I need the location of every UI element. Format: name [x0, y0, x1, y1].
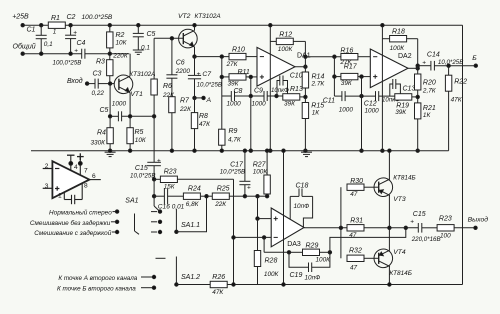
- svg-text:C5: C5: [147, 31, 156, 38]
- svg-text:+: +: [410, 218, 414, 225]
- op-amp DA1: [257, 47, 311, 86]
- resistor R26: [210, 274, 227, 296]
- svg-text:К точке А второго канала: К точке А второго канала: [58, 275, 137, 282]
- svg-text:C2: C2: [67, 14, 76, 21]
- resistor R5: [127, 116, 147, 150]
- pin 4: [67, 155, 78, 171]
- svg-text:R14: R14: [312, 73, 325, 80]
- svg-text:15К: 15К: [164, 183, 176, 190]
- resistor R10: [226, 47, 247, 68]
- svg-text:+: +: [422, 59, 426, 66]
- node junction C1 top: [40, 24, 43, 27]
- resistor R14: [302, 57, 325, 103]
- svg-text:10пФ: 10пФ: [305, 274, 321, 281]
- node R17 column top: [333, 55, 336, 58]
- node DA2 output: [408, 67, 419, 70]
- pin 7: [77, 153, 88, 175]
- node R11 column top: [220, 55, 223, 58]
- op-amp DA2: [370, 49, 411, 88]
- resistor R28: [254, 219, 279, 285]
- resistor R30: [347, 178, 379, 198]
- svg-text:Смешивание с задержкой: Смешивание с задержкой: [34, 229, 112, 237]
- svg-text:47: 47: [350, 191, 358, 198]
- svg-text:КТ814Б: КТ814Б: [393, 175, 416, 182]
- wire DA1 out to R16: [305, 56, 341, 58]
- svg-text:1000: 1000: [365, 107, 380, 114]
- svg-text:КТ3102А: КТ3102А: [129, 71, 155, 78]
- svg-text:+: +: [157, 158, 161, 165]
- resistor R4: [91, 116, 114, 150]
- svg-text:10К: 10К: [135, 137, 147, 144]
- svg-text:С13: С13: [403, 86, 416, 93]
- node Vykhod terminal: [468, 216, 489, 230]
- svg-text:R9: R9: [229, 128, 238, 135]
- svg-text:SA1.2: SA1.2: [181, 274, 200, 281]
- svg-text:R30: R30: [350, 178, 363, 185]
- switch SA1.2 pole: [175, 257, 200, 287]
- svg-text:А: А: [206, 97, 212, 104]
- contact row3 mid: [151, 230, 162, 233]
- capacitor C10: [271, 72, 303, 96]
- svg-text:1000: 1000: [112, 101, 127, 108]
- wire VT1 emitter: [129, 93, 131, 117]
- svg-text:39К: 39К: [341, 80, 353, 87]
- wire R4 column top: [109, 84, 111, 117]
- svg-text:R28: R28: [265, 258, 278, 265]
- capacitor C14: [418, 52, 476, 71]
- node R2 R3 junction: [108, 52, 129, 60]
- svg-text:R5: R5: [135, 129, 144, 136]
- wire VT4 emitter: [388, 228, 390, 250]
- svg-text:4,7К: 4,7К: [228, 137, 242, 144]
- svg-text:С19: С19: [290, 272, 303, 279]
- svg-text:R18: R18: [392, 29, 405, 36]
- node R14 R15 junction: [304, 95, 307, 98]
- svg-text:С16: С16: [158, 203, 170, 210]
- node junction R4 top: [108, 115, 111, 118]
- svg-text:100: 100: [440, 232, 451, 239]
- svg-text:39К: 39К: [284, 100, 296, 107]
- wire R6 to C15: [153, 116, 155, 162]
- svg-text:220,0*16В: 220,0*16В: [411, 236, 441, 243]
- ground symbol right: [301, 152, 312, 156]
- node C16 top: [152, 195, 155, 198]
- node R29 link top: [262, 236, 265, 239]
- svg-text:100К: 100К: [264, 271, 280, 278]
- capacitor C11: [323, 91, 354, 113]
- svg-text:R1: R1: [51, 15, 60, 22]
- resistor R6: [151, 38, 175, 116]
- wire feedback to output: [330, 226, 408, 252]
- wire plus to C8C9 wire: [250, 77, 252, 96]
- contact row A: [141, 275, 156, 278]
- pin 1: [58, 192, 64, 199]
- capacitor C19: [289, 252, 330, 281]
- node C9 plus junction: [249, 75, 252, 78]
- resistor R18: [382, 29, 417, 52]
- wire V1 mix bus: [232, 179, 235, 286]
- svg-text:С15: С15: [413, 211, 426, 218]
- svg-text:2200: 2200: [175, 68, 191, 75]
- resistor R23out: [437, 215, 475, 239]
- transistor VT2: [178, 13, 221, 48]
- capacitor C5a 1000: [100, 101, 127, 122]
- svg-text:2.7К: 2.7К: [311, 80, 326, 87]
- svg-text:2,7К: 2,7К: [422, 87, 437, 94]
- node C11 C12 top: [360, 75, 363, 78]
- label k tochke B: [57, 286, 136, 293]
- svg-text:R32: R32: [349, 248, 362, 255]
- wire R17 column: [333, 57, 335, 96]
- wire R18 down to output: [416, 39, 419, 68]
- contact row2 left: [111, 220, 119, 223]
- resistor R1: [48, 15, 65, 35]
- power line DA3: [282, 149, 285, 286]
- resistor R8: [191, 98, 211, 151]
- node R29 left: [287, 251, 290, 254]
- svg-text:R2: R2: [116, 32, 125, 39]
- svg-text:1000: 1000: [339, 107, 354, 114]
- svg-text:330К: 330К: [91, 139, 107, 146]
- wire mid ground rail: [31, 150, 449, 152]
- node rail R8: [193, 149, 196, 152]
- node V1 minus junction: [232, 236, 235, 239]
- ground main symbol: [105, 152, 116, 156]
- op-amp pinout triangle: [52, 161, 89, 198]
- svg-text:Общий: Общий: [13, 43, 36, 51]
- node DA1 output: [295, 65, 307, 68]
- wire VT2 emitter: [193, 47, 196, 59]
- wire bottom rail: [176, 284, 462, 286]
- svg-text:С10: С10: [290, 72, 303, 79]
- contact row1 left: [113, 210, 119, 213]
- svg-text:R6: R6: [163, 83, 172, 90]
- node C11 C12 junction: [360, 94, 363, 97]
- wire right edge vertical: [462, 25, 464, 284]
- svg-text:1К: 1К: [423, 112, 432, 119]
- resistor R9: [219, 96, 242, 151]
- svg-text:1: 1: [53, 29, 57, 36]
- svg-text:С3: С3: [93, 70, 102, 77]
- resistor R3: [96, 54, 113, 84]
- svg-text:R23: R23: [439, 215, 452, 222]
- svg-text:10,0*25В: 10,0*25В: [438, 59, 463, 66]
- svg-text:1К: 1К: [312, 109, 321, 116]
- svg-text:100К: 100К: [253, 168, 269, 175]
- contact row2 mid: [151, 220, 162, 223]
- node +25V terminal: [12, 14, 29, 27]
- wire C11C12 to rail: [360, 77, 363, 153]
- resistor R22: [445, 64, 467, 151]
- power line DA2: [381, 24, 384, 153]
- svg-text:+25В: +25В: [12, 14, 29, 21]
- svg-text:+: +: [247, 184, 251, 191]
- svg-text:R10: R10: [232, 47, 245, 54]
- node junction R5 top: [128, 115, 131, 118]
- svg-text:1: 1: [58, 193, 62, 200]
- svg-text:R13: R13: [290, 86, 303, 93]
- svg-text:10,0*25В: 10,0*25В: [130, 173, 155, 180]
- capacitor C7: [188, 57, 222, 98]
- svg-text:7: 7: [84, 168, 88, 175]
- svg-text:47К: 47К: [451, 97, 463, 104]
- svg-text:22К: 22К: [179, 106, 192, 113]
- switch SA1 pole left: [135, 214, 140, 235]
- svg-text:Вход: Вход: [67, 77, 83, 85]
- wire top rail +25V: [23, 24, 463, 26]
- wire VT2 collector: [193, 24, 196, 31]
- svg-text:VT3: VT3: [393, 196, 406, 203]
- contact row B: [141, 286, 156, 289]
- wire VT2 base: [154, 37, 183, 39]
- svg-text:100К: 100К: [278, 46, 294, 53]
- svg-text:VT2: VT2: [178, 13, 191, 20]
- svg-text:10пкФ: 10пкФ: [271, 87, 289, 94]
- svg-text:10пФ: 10пФ: [294, 203, 310, 210]
- wire W1 to jog: [245, 195, 269, 198]
- contact SA1.2 top: [156, 257, 166, 259]
- power line DA1: [269, 24, 272, 153]
- resistor R23: [154, 169, 233, 191]
- resistor R19: [395, 94, 418, 116]
- pin 2: [43, 163, 53, 170]
- capacitor C1: [27, 25, 54, 54]
- svg-text:R4: R4: [97, 130, 106, 137]
- node R29 right: [328, 251, 331, 254]
- svg-text:КТ3102А: КТ3102А: [195, 13, 221, 20]
- svg-text:1000: 1000: [252, 100, 267, 107]
- svg-text:С1: С1: [27, 27, 36, 34]
- resistor R11: [222, 69, 257, 87]
- svg-text:+: +: [74, 47, 78, 54]
- capacitor C6: [166, 37, 190, 97]
- svg-text:R31: R31: [350, 218, 363, 225]
- svg-text:6,8К: 6,8К: [186, 201, 200, 208]
- svg-text:С11: С11: [323, 98, 335, 105]
- node rail R15: [0, 0, 1, 1]
- resistor R7: [169, 97, 192, 151]
- resistor R25: [212, 186, 245, 208]
- label normal stereo: [49, 209, 112, 217]
- node C10 left junction: [275, 94, 278, 97]
- svg-text:DA3: DA3: [287, 241, 301, 248]
- svg-text:39К: 39К: [395, 109, 407, 116]
- capacitor C5: [133, 24, 156, 52]
- resistor R12: [270, 32, 305, 53]
- transistor VT1: [110, 71, 155, 98]
- wire jog to DA3 plus: [256, 196, 271, 220]
- wire C15 to SA1: [154, 179, 160, 211]
- node junction R6 bottom: [152, 115, 155, 118]
- svg-text:R20: R20: [423, 80, 436, 87]
- wire C4 to R2R3 node: [85, 53, 129, 55]
- capacitor C16: [154, 188, 185, 210]
- node B terminal: [472, 55, 477, 68]
- pin 6 output: [89, 173, 100, 180]
- capacitor C17: [220, 149, 251, 196]
- node junction C1 bottom: [40, 52, 43, 55]
- wire DA3 minus: [234, 236, 272, 238]
- svg-text:VT1: VT1: [130, 91, 143, 98]
- svg-text:100К: 100К: [390, 45, 406, 52]
- svg-text:R3: R3: [96, 59, 105, 66]
- svg-text:КТ814Б: КТ814Б: [389, 270, 412, 277]
- wire 1000-cap link: [110, 115, 154, 117]
- svg-text:С8: С8: [234, 88, 243, 95]
- node R23 left: [152, 178, 155, 181]
- svg-text:10К: 10К: [116, 39, 128, 46]
- resistor R15: [302, 103, 324, 153]
- svg-text:R24: R24: [188, 186, 201, 193]
- svg-text:8: 8: [84, 182, 88, 189]
- node R24 R25 junction: [201, 195, 213, 198]
- resistor R17: [334, 64, 370, 88]
- svg-text:R25: R25: [217, 186, 230, 193]
- wire VT3 emitter: [388, 195, 390, 227]
- capacitor C12: [364, 91, 379, 114]
- svg-text:10,0*25В: 10,0*25В: [197, 82, 222, 89]
- node A junction: [193, 96, 212, 104]
- svg-text:DA2: DA2: [398, 53, 412, 60]
- contact row1 mid: [151, 210, 162, 213]
- capacitor C8: [227, 88, 243, 107]
- node emitters junction: [388, 226, 391, 229]
- wire VT3 collector: [388, 149, 391, 179]
- svg-text:0,1: 0,1: [44, 41, 53, 48]
- svg-text:0,22: 0,22: [92, 90, 105, 97]
- wire VT4 collector: [388, 267, 391, 287]
- transistor VT4: [374, 249, 412, 277]
- svg-text:C14: C14: [427, 52, 440, 59]
- capacitor C15: [130, 158, 161, 180]
- svg-text:С5: С5: [100, 107, 109, 114]
- resistor R24: [183, 186, 200, 209]
- svg-text:Б: Б: [472, 55, 477, 62]
- transistor VT3: [374, 175, 416, 204]
- resistor R31: [347, 218, 364, 240]
- svg-text:0,01: 0,01: [172, 203, 185, 210]
- svg-text:27К: 27К: [226, 61, 239, 68]
- svg-text:220К: 220К: [112, 53, 129, 60]
- resistor R32: [347, 248, 379, 272]
- svg-text:Смешивание без задержки: Смешивание без задержки: [30, 219, 111, 227]
- wire DA3 output: [304, 227, 348, 229]
- contact row3 left: [112, 230, 119, 233]
- label mix no delay: [30, 219, 111, 227]
- capacitor C4: [53, 40, 86, 66]
- resistor R29: [289, 242, 331, 263]
- svg-text:SA1.1: SA1.1: [181, 222, 200, 229]
- pin 8: [82, 182, 88, 199]
- resistor R16: [339, 47, 370, 66]
- svg-text:R16: R16: [340, 47, 353, 54]
- svg-text:C9: C9: [254, 88, 263, 95]
- svg-text:47К: 47К: [212, 289, 224, 296]
- node R20 R21 junction: [416, 95, 419, 98]
- svg-text:R22: R22: [454, 78, 467, 85]
- correction capacitor: [64, 195, 82, 204]
- svg-text:С18: С18: [296, 183, 309, 190]
- svg-text:R7: R7: [180, 97, 190, 104]
- node R17 left: [333, 75, 336, 78]
- svg-text:R23: R23: [164, 169, 177, 176]
- svg-text:100,0*25В: 100,0*25В: [53, 59, 82, 66]
- node C8 C9 junction: [249, 94, 252, 97]
- svg-text:К точке Б второго канала: К точке Б второго канала: [57, 286, 136, 293]
- svg-text:6: 6: [92, 173, 96, 180]
- node R11 left: [220, 75, 223, 78]
- switch SA1.1 pole: [175, 196, 207, 233]
- label mix with delay: [34, 229, 112, 237]
- wire emitter to R10: [195, 56, 229, 58]
- wire R10 to DA1: [246, 56, 257, 58]
- node Obshchiy terminal: [13, 43, 36, 56]
- svg-text:47: 47: [349, 232, 357, 239]
- svg-text:R11: R11: [238, 69, 250, 76]
- svg-text:C6: C6: [176, 60, 185, 67]
- capacitor C3: [87, 70, 110, 96]
- op-amp DA3: [271, 208, 304, 248]
- resistor R27: [253, 149, 271, 196]
- resistor R21: [415, 103, 436, 152]
- svg-text:2: 2: [45, 163, 49, 170]
- node Vkhod terminal: [67, 77, 89, 86]
- capacitor C15out: [389, 211, 440, 243]
- resistor R13: [283, 86, 306, 107]
- capacitor C13: [382, 79, 415, 104]
- svg-text:47К: 47К: [199, 121, 211, 128]
- wire R11 column: [221, 57, 223, 96]
- svg-text:+: +: [73, 29, 77, 36]
- node rail R9: [220, 149, 223, 152]
- resistor R20: [415, 66, 437, 103]
- wire C11 C12 bus: [334, 95, 395, 97]
- label k tochke A: [58, 275, 137, 282]
- svg-text:100.0*25В: 100.0*25В: [82, 14, 113, 21]
- svg-text:VT4: VT4: [393, 249, 406, 256]
- svg-text:С4: С4: [77, 40, 86, 47]
- wire ground bus left: [23, 53, 82, 55]
- svg-text:3: 3: [45, 183, 49, 190]
- ground below C5: [133, 50, 144, 54]
- node R30 column junction: [339, 226, 342, 229]
- svg-text:R21: R21: [423, 105, 436, 112]
- node C17 bottom: [243, 195, 246, 198]
- label SA1: [125, 197, 138, 204]
- svg-text:С15: С15: [135, 165, 148, 172]
- svg-text:R29: R29: [306, 242, 319, 249]
- svg-text:22К: 22К: [214, 201, 227, 208]
- pin 3: [43, 183, 53, 190]
- capacitor C2: [65, 14, 113, 55]
- wire R31 to emitters: [364, 227, 390, 229]
- svg-text:47: 47: [350, 265, 358, 272]
- svg-text:100К: 100К: [316, 257, 332, 264]
- node rail R5: [128, 149, 131, 152]
- svg-text:Выход: Выход: [468, 216, 489, 224]
- node rail R4: [108, 149, 111, 152]
- svg-text:R17: R17: [344, 64, 358, 71]
- node rail R7: [170, 149, 173, 152]
- svg-text:R8: R8: [199, 113, 208, 120]
- wire C8 C9 bus: [222, 95, 284, 97]
- svg-text:10,0*25В: 10,0*25В: [220, 168, 245, 175]
- svg-text:Нормальный стерео: Нормальный стерео: [49, 209, 112, 217]
- node C3 R3 junction: [108, 82, 111, 85]
- wire R12 down to output: [304, 41, 307, 58]
- resistor R2: [107, 24, 128, 54]
- capacitor C18: [290, 183, 312, 228]
